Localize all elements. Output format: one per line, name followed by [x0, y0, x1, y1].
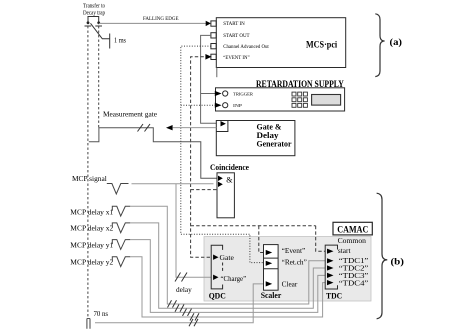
label Gate: [220, 253, 235, 262]
label RETARDATION SUPPLY: [256, 79, 344, 89]
svg-text:MCP delay y2: MCP delay y2: [70, 259, 113, 267]
svg-text:Decay trap: Decay trap: [83, 11, 105, 17]
svg-text:Scaler: Scaler: [261, 291, 282, 300]
arrow QDC charge input: [213, 275, 218, 280]
label Measurement gate: [103, 110, 158, 119]
wire dashed from switch left contact down to 70ns pulse: [87, 26, 89, 317]
svg-text:“Charge”: “Charge”: [221, 274, 247, 283]
label Scaler: [261, 291, 282, 300]
bus slash marks on delay wires: [168, 300, 200, 320]
svg-text:Common: Common: [338, 236, 366, 245]
retardation supply unit U2: [216, 88, 345, 111]
svg-text:“Ret.ch”: “Ret.ch”: [282, 258, 308, 267]
label and-gate symbol: [226, 175, 233, 184]
wire dashed EVENT-gate net vertical: [191, 57, 326, 257]
svg-text:start: start: [338, 246, 351, 255]
svg-text:Channel Advanced Out: Channel Advanced Out: [223, 44, 269, 50]
label TDC: [326, 291, 342, 300]
svg-text:delay: delay: [176, 285, 192, 294]
label MCP delay x2: [70, 225, 113, 233]
gate and delay generator unit U3: [216, 121, 295, 156]
svg-text:&: &: [226, 175, 233, 184]
svg-text:Coincidence: Coincidence: [210, 163, 249, 172]
arrow TDC3 input: [327, 273, 334, 278]
arrow annotation pointing left at gate wire: [166, 125, 216, 130]
label (a): [390, 37, 403, 48]
arrow QDC gate input: [213, 255, 218, 260]
label (b): [391, 256, 405, 267]
wire MCP delay y1 to TDC3: [130, 240, 325, 313]
svg-text:Gate: Gate: [220, 253, 235, 262]
label FALLING EDGE: [143, 16, 179, 22]
arrow scaler clear input: [266, 281, 273, 286]
waveform pulse MCP delay x2: [112, 223, 130, 233]
svg-text:MCP delay y1: MCP delay y1: [70, 242, 113, 250]
wire stub below MCS-pci left corner: [216, 68, 218, 78]
label MCP delay x1: [70, 209, 113, 217]
svg-text:MCP delay x1: MCP delay x1: [70, 209, 113, 217]
svg-text:Clear: Clear: [282, 279, 298, 288]
svg-text:MCP delay x2: MCP delay x2: [70, 225, 113, 233]
label Coincidence: [210, 163, 249, 172]
display of retardation supply: [312, 95, 341, 106]
arrow into gate-delay input: [221, 121, 226, 126]
arrow into EVENT IN: [205, 54, 211, 60]
TDC unit U7 (open box): [325, 245, 337, 289]
arrow scaler ret.ch input: [266, 261, 273, 266]
switch S1 (transfer to decay trap): [85, 17, 110, 49]
svg-text:MCS·pci: MCS·pci: [306, 40, 338, 50]
label MCP delay y1: [70, 242, 113, 250]
svg-text:TDC: TDC: [326, 291, 342, 300]
wire START OUT down to trigger and gate-delay input: [201, 35, 220, 123]
label Common start: [338, 236, 366, 255]
svg-text:“EVENT IN”: “EVENT IN”: [223, 54, 250, 61]
label TDC4: [339, 278, 369, 287]
wire branch to TRIGGER: [201, 93, 216, 95]
arrow TDC common start input: [327, 249, 334, 254]
label MCP delay y2: [70, 259, 113, 267]
svg-text:TRIGGER: TRIGGER: [233, 91, 253, 96]
svg-text:CAMAC: CAMAC: [337, 224, 368, 234]
scaler unit U6: [264, 245, 279, 291]
wire falling edge to START IN: [99, 22, 206, 24]
wire MCP delay y2 to TDC4: [130, 257, 325, 317]
waveform pulse MCP delay y1: [112, 240, 130, 250]
label Ret.ch: [282, 258, 308, 267]
arrow into START IN: [206, 21, 211, 26]
CAMAC label box: [333, 222, 372, 235]
svg-text:START IN: START IN: [223, 21, 245, 27]
svg-text:“TDC4”: “TDC4”: [339, 278, 369, 287]
svg-text:Transfer to: Transfer to: [83, 3, 105, 10]
svg-text:Measurement gate: Measurement gate: [103, 110, 158, 119]
coincidence unit U4: [217, 173, 234, 218]
bus slash mark on 70ns wire: [189, 319, 198, 326]
wire MCP signal branch to QDC charge: [176, 184, 211, 278]
arrow coincidence input 2: [218, 182, 223, 187]
svg-text:MCP signal: MCP signal: [72, 175, 107, 183]
bus slash marks on measurement gate: [138, 124, 151, 132]
label 70 ns: [94, 310, 109, 318]
arrow scaler event input: [266, 250, 273, 255]
label TDC3: [339, 271, 369, 280]
waveform pulse 70 ns: [87, 319, 90, 329]
arrow TDC1 input: [327, 258, 334, 263]
svg-text:QDC: QDC: [209, 291, 226, 300]
wire dashed from switch right contact down to measurement gate pulse: [98, 26, 100, 128]
label MCP signal: [72, 175, 107, 183]
arrow TDC4 input: [327, 280, 334, 285]
arrow into INP: [215, 103, 222, 108]
svg-text:70 ns: 70 ns: [94, 310, 109, 318]
wire MCP delay x1 to TDC1: [130, 206, 325, 304]
waveform pulse MCP delay x1: [112, 206, 130, 216]
svg-text:INP: INP: [233, 103, 243, 108]
svg-text:START OUT: START OUT: [223, 33, 250, 39]
label Event: [282, 246, 306, 255]
measurement gate pulse waveform on wire: [89, 128, 217, 179]
label TDC2: [339, 264, 369, 273]
svg-text:FALLING EDGE: FALLING EDGE: [143, 16, 179, 22]
wire 70ns to scaler clear: [95, 284, 264, 323]
label QDC: [209, 291, 226, 300]
MCS-pci unit U1: [211, 18, 346, 68]
svg-text:“Event”: “Event”: [282, 246, 306, 255]
waveform pulse MCP delay y2: [112, 257, 130, 267]
label Charge: [221, 274, 247, 283]
arrow into TRIGGER: [215, 91, 222, 96]
brace (a): [375, 14, 384, 77]
label 1 ms: [114, 37, 126, 45]
svg-text:Generator: Generator: [257, 139, 292, 149]
keypad of retardation supply: [292, 92, 307, 107]
arrow coincidence input 1: [218, 176, 223, 181]
waveform pulse MCP signal: [107, 184, 129, 195]
CAMAC crate shaded region: [204, 237, 371, 302]
label Clear: [282, 279, 298, 288]
bus slash marks on QDC charge wire with label delay: [175, 273, 187, 282]
brace (b): [377, 193, 388, 319]
QDC unit U5 (open box): [211, 245, 222, 289]
wire dotted Channel Advanced Out net: [181, 46, 264, 263]
wire MCP signal to coincidence input 2: [132, 183, 214, 185]
svg-text:1 ms: 1 ms: [114, 37, 126, 45]
node Transfer-to-Decay-trap label: [83, 3, 105, 17]
svg-text:(b): (b): [391, 256, 405, 267]
wire MCP delay x2 to TDC2: [130, 223, 325, 308]
arrow TDC2 input: [327, 265, 334, 270]
label TDC1: [339, 256, 369, 265]
svg-text:(a): (a): [390, 37, 403, 48]
label delay: [176, 285, 192, 294]
